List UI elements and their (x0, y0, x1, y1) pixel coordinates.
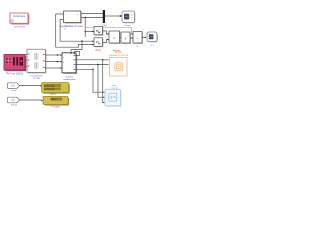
wire vertical drop from junction to T1 tap (84, 18, 86, 37)
wire T2 output to U1 input 2 (103, 40, 108, 43)
svg-text:Invertor: Invertor (66, 75, 74, 78)
arrowhead into blue grid input 2 (103, 97, 105, 98)
arrowhead into orange display input 2 (108, 64, 110, 65)
svg-text:c: c (63, 67, 64, 69)
scope SC1 (122, 11, 136, 24)
orange display block D3 (110, 58, 128, 77)
wire drop to blue grid input 2 (98, 65, 104, 98)
label retea LV_grid (111, 84, 118, 89)
svg-text:PID V: PID V (50, 94, 56, 96)
svg-text:380.2: 380.2 (55, 86, 61, 88)
wire S1 right port 4 down to blue grid input 1 (77, 69, 104, 92)
RMS block T2 (92, 38, 103, 48)
wire branch down to subsystem S1 top port 1 (71, 41, 82, 52)
arrowhead into D1 (40, 85, 42, 87)
svg-text:Vrms: Vrms (95, 49, 101, 52)
svg-text:LV / MV: LV / MV (33, 78, 41, 80)
label Invertor control retea (63, 75, 76, 81)
svg-text:1.352: 1.352 (56, 99, 62, 101)
wire T1 output to U1 input 1 (103, 31, 108, 34)
wire TR1 phase a to subsystem S1 (45, 54, 61, 56)
subsystem block S1 (62, 53, 77, 74)
svg-text:PARAMETRI RETEA: PARAMETRI RETEA (109, 54, 129, 57)
junction at x102.7 y59.8 (102, 59, 104, 61)
svg-text:[V]: [V] (12, 85, 15, 88)
three-phase V-I measurement block B1 (64, 11, 82, 24)
PV array block G1 (4, 55, 26, 72)
wire S1 right port 2 to orange display input 1 (77, 59, 109, 61)
arrowhead into S1 port a (61, 54, 63, 55)
wire G1 phase b to transformer TR1 (25, 60, 27, 62)
svg-text:AFISAJ: AFISAJ (115, 51, 122, 54)
junction at x82 y41 (81, 40, 83, 42)
arrowhead into S1 port c (61, 67, 63, 68)
arrowhead into D2 (41, 100, 43, 102)
svg-text:a: a (63, 57, 64, 59)
transformer block TR1 (27, 49, 47, 73)
product block U1 (109, 31, 121, 44)
svg-text:control retea: control retea (63, 78, 76, 81)
arrowhead into blue grid input 1 (103, 92, 105, 93)
arrowhead into U1 input 1 (108, 33, 110, 34)
svg-text:From1: From1 (11, 103, 18, 106)
wire G1 phase a to transformer TR1 (25, 54, 27, 56)
arrowhead into scope SC2 (145, 37, 147, 38)
blue grid block S2 (105, 89, 122, 107)
label AFISAJ PARAMETRI RETEA (109, 51, 129, 57)
label Transformator LV / MV (30, 74, 43, 79)
svg-text:P output: P output (51, 106, 60, 109)
wire drop to blue grid input 3 (102, 60, 105, 103)
junction on phase b wire (57, 61, 59, 63)
from tag F2 (7, 97, 19, 103)
arrowhead into S1 port b (61, 61, 63, 62)
wire U2 to U3 (130, 37, 133, 39)
svg-text:a+ Masurare V-I retea: a+ Masurare V-I retea (60, 25, 83, 28)
svg-text:b: b (63, 62, 64, 64)
divide block U3 (132, 32, 143, 45)
scope SC2 (147, 32, 158, 43)
label Masurare V-I retea (60, 25, 83, 31)
arrowhead into U3 input 2 (132, 37, 133, 38)
wire B1 left port 2 to T2 input 1 (60, 20, 92, 42)
junction at x85 y31.5 (85, 31, 86, 32)
wire B1 left port 1 to T2 input 2 (56, 14, 93, 47)
wire gray feed to U3 input 1 (85, 28, 133, 35)
arrowhead into orange display input 1 (108, 59, 110, 60)
wire U3 to scope SC2 (142, 37, 146, 39)
RMS block T1 (92, 27, 103, 36)
wire F1 to display D1 (20, 85, 40, 87)
svg-text:div: div (136, 45, 138, 47)
wire TR1 phase c to subsystem S1 (45, 67, 61, 69)
wire mux M1 output to scope SC1 (105, 15, 120, 17)
junction at x93 y69.3 (92, 69, 94, 71)
arrowhead into blue grid input 3 (103, 102, 105, 103)
arrowhead into scope SC1 (120, 15, 122, 17)
svg-text:From: From (11, 89, 16, 92)
wire S1 right port 3 to orange display input 2 (77, 64, 109, 66)
wire T1 input (85, 31, 94, 33)
display block D2 (43, 96, 69, 105)
svg-text:[P]: [P] (12, 99, 15, 102)
junction on phase a wire (57, 54, 59, 56)
wire TR1 phase b to subsystem S1 (45, 61, 61, 63)
junction at x85 y17.6 (84, 17, 86, 19)
powergui block U_PG (10, 13, 29, 25)
wire U1 to U2 (120, 37, 122, 39)
svg-text:Sc1: Sc1 (150, 45, 153, 47)
from tag F1 (7, 83, 19, 89)
mux M1 (103, 10, 105, 23)
svg-text:49.99: 49.99 (55, 89, 61, 91)
wire B1 right port 2 to mux M1 input 2 (81, 17, 103, 19)
junction at x98 y64.6 (97, 64, 99, 66)
svg-text:powergui: powergui (14, 24, 25, 28)
svg-text:PV Array 100kW: PV Array 100kW (6, 72, 24, 75)
integrator block U2 (121, 32, 131, 44)
wire F2 to display D2 (20, 99, 42, 101)
wire S1 right port 1 loop to S1 top port 2 (75, 52, 80, 56)
wire G1 phase c to transformer TR1 (25, 66, 27, 68)
svg-text:Continuous: Continuous (13, 15, 26, 18)
arrowhead into U1 input 2 (108, 39, 110, 40)
svg-text:ab: ab (64, 28, 66, 30)
display block D1 (42, 83, 70, 94)
svg-text:Scope: Scope (124, 25, 131, 27)
wire B1 right port 1 to mux M1 input 1 (81, 13, 103, 15)
svg-text:s: s (125, 37, 127, 41)
